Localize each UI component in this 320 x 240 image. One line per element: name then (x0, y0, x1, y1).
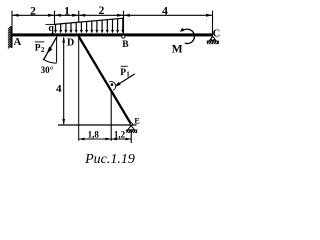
svg-text:2: 2 (30, 6, 36, 18)
svg-text:1: 1 (126, 71, 130, 79)
svg-text:1,8: 1,8 (88, 130, 100, 140)
top dimension arrowheads (12, 14, 213, 17)
extension tick at D (78, 11, 80, 22)
bar DE (79, 36, 131, 124)
support at C roller circle (211, 37, 214, 40)
beam AC (11, 33, 213, 36)
P2 label overline (35, 41, 45, 43)
bottom dimension middle tick (110, 91, 112, 141)
distributed load top line (55, 18, 124, 24)
svg-text:1,2: 1,2 (114, 130, 126, 140)
svg-text:D: D (67, 37, 74, 48)
svg-text:M: M (172, 44, 183, 56)
bottom dimension arrowheads (79, 138, 132, 141)
q overline (46, 23, 55, 25)
force P2 arrowhead (47, 47, 53, 54)
label 1,2 (113, 131, 126, 138)
30 deg arc (43, 59, 57, 63)
30 deg reference vertical (56, 36, 58, 62)
extension tick at A (11, 11, 13, 26)
svg-text:q: q (48, 23, 54, 34)
P1 label overline (121, 65, 128, 67)
support at E ground (126, 129, 137, 131)
svg-text:A: A (14, 37, 22, 48)
label 1,8 (86, 131, 100, 138)
wall hatching (8, 27, 11, 49)
svg-text:E: E (134, 116, 139, 125)
svg-text:2: 2 (41, 46, 45, 54)
moment M arrowhead (180, 28, 185, 32)
extension tick at C (212, 11, 214, 34)
perpendicular angle arc with dot (109, 82, 116, 91)
svg-text:4: 4 (56, 83, 62, 95)
force P1 line (115, 74, 134, 86)
hinge circle at E (130, 123, 133, 126)
wall at A (11, 26, 13, 48)
vertical dimension 4 line (63, 37, 65, 124)
svg-text:P: P (35, 44, 41, 54)
svg-text:B: B (122, 40, 129, 50)
moment M arc (182, 29, 194, 43)
svg-text:1: 1 (64, 6, 70, 18)
support at E triangle (128, 126, 135, 130)
support at C triangle (209, 37, 216, 41)
svg-text:30°: 30° (41, 65, 54, 75)
distributed load arrows (56, 18, 123, 30)
svg-text:2: 2 (99, 5, 105, 17)
extension tick at B (123, 11, 125, 34)
bottom dimension right tick (130, 130, 132, 143)
force P2 line (43, 37, 56, 60)
extension tick at load start (54, 11, 56, 25)
ground reference line (58, 124, 137, 126)
hinge circle at B (122, 35, 125, 38)
svg-text:4: 4 (162, 5, 168, 17)
support at C ground (207, 40, 219, 42)
vertical reference line below D (78, 36, 80, 140)
bottom dimension line (79, 138, 132, 140)
top dimension line (12, 14, 213, 16)
force P1 arrowhead (115, 82, 121, 87)
svg-text:Рис.1.19: Рис.1.19 (84, 152, 135, 167)
